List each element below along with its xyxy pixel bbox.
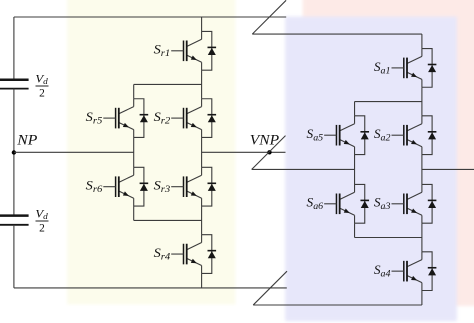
wire: left DC-link vertical, middle section [13,89,15,216]
wire: DC- bottom bus (phase a) [253,304,422,306]
transistor S_a4 (IGBT symbol) [407,260,422,267]
transistor S_r2 (IGBT symbol) [187,107,202,114]
wire: VNP rail to phase-a clamp branch [252,168,355,170]
wire: diode branch loop of S_a1 [422,49,432,88]
wire: diagonal DC- bus interconnect between planes [253,271,287,305]
IGBT cell S_a2: transistor + antiparallel diode [374,116,437,155]
gate lead of S_a3 [392,203,404,205]
transistor S_a1 (IGBT symbol) [407,56,422,63]
gate lead of S_a1 [392,67,404,69]
emitter arrow of S_r3 [191,191,197,195]
gate lead of S_a6 [324,203,336,205]
transistor S_r1 (IGBT symbol) [187,39,202,46]
wire: emitter stub of S_r3 [201,198,203,206]
wire: collector stub of S_r3 [201,167,203,175]
wire: collector stub of S_r5 [133,99,135,107]
capacitor C1, value Vd/2 [0,80,29,89]
gate lead of S_r3 [171,186,183,188]
diode of S_r2 (cathode bar + filled triangle) [208,114,217,116]
wire: main leg vertical Sr2-Sr3 [201,137,203,167]
wire: diode branch loop of S_r3 [202,167,212,206]
diode of S_r6 (cathode bar + filled triangle) [140,182,149,184]
background plane: redundant leg r (yellow) [67,0,235,305]
gate lead of S_r4 [171,253,183,255]
svg-text:NP: NP [16,133,37,149]
wire: emitter stub of S_a2 [421,147,423,155]
diode of S_r4 (cathode bar + filled triangle) [208,250,217,252]
emitter arrow of S_a2 [411,140,417,144]
svg-text:2: 2 [39,222,45,234]
wire: left DC-link vertical, top section [13,17,15,80]
wire: diode branch loop of S_r6 [134,167,144,206]
wire: emitter stub of S_r6 [133,198,135,206]
wire: emitter stub of S_a4 [421,283,423,291]
wire: emitter stub of S_a1 [421,79,423,87]
gate lead of S_r1 [171,50,183,52]
wire: main leg vertical Sr3-Sr4 [201,206,203,235]
diode of S_a4 (cathode bar + filled triangle) [428,267,437,269]
wire: top bus to Sa1 [421,34,423,48]
emitter arrow of S_r1 [191,56,197,60]
gate lead of S_r5 [103,117,115,119]
IGBT cell S_a6: transistor + antiparallel diode [307,184,370,223]
node VNP (dot) [267,150,271,154]
wire: emitter stub of S_a5 [354,147,356,155]
diode of S_a2 (cathode bar + filled triangle) [428,131,437,133]
wire: DC+ top bus (leg r) [14,16,286,18]
wire: DC+ top bus (phase a) [252,33,422,35]
wire: emitter stub of S_r1 [201,62,203,70]
diode of S_r1 (cathode bar + filled triangle) [208,46,217,48]
diode of S_r5 (cathode bar + filled triangle) [140,114,149,116]
wire: phase-a output to right edge [422,168,474,170]
gate lead of S_a4 [392,270,404,272]
wire: collector stub of S_r4 [201,235,203,243]
transistor S_a6 (IGBT symbol) [340,192,355,199]
gate lead of S_a5 [324,134,336,136]
wire: DC- bottom bus (leg r) [14,287,287,289]
IGBT cell S_r2: transistor + antiparallel diode [154,99,217,138]
wire: diagonal DC+ bus interconnect between planes [252,0,286,34]
wire: diode branch loop of S_a4 [422,252,432,291]
wire: emitter stub of S_r4 [201,266,203,274]
wire: clamp vertical Sa5 to Sa6 (through VNP rail) [354,155,356,185]
wire: main leg vertical Sa1-Sa2 [421,87,423,116]
emitter arrow of S_a3 [411,209,417,213]
wire: Sa4 to bottom bus [421,291,423,306]
IGBT cell S_a5: transistor + antiparallel diode [307,116,370,155]
wire: emitter stub of S_r5 [133,130,135,138]
wire: collector stub of S_a1 [421,49,423,57]
wire: main leg vertical Sa2-Sa3 [421,155,423,185]
transistor S_r3 (IGBT symbol) [187,175,202,182]
wire: collector stub of S_a5 [354,116,356,124]
wire: main leg vertical Sa3-Sa4 [421,223,423,252]
wire: emitter stub of S_a3 [421,215,423,223]
emitter arrow of S_a1 [411,73,417,77]
wire: collector stub of S_a6 [354,184,356,192]
transistor S_r5 (IGBT symbol) [119,107,134,114]
wire: collector stub of S_r6 [133,167,135,175]
label Vd/2 for C2 [35,207,48,234]
emitter arrow of S_a6 [344,209,350,213]
wire: collector stub of S_a3 [421,184,423,192]
wire: clamp vertical Sr6 to jx2 [133,206,135,220]
wire: diode branch loop of S_a5 [355,116,365,155]
wire: junction Sa3-Sa4 to clamp bottom [355,237,422,239]
wire: diode branch loop of S_a6 [355,184,365,223]
node NP (dot) [12,150,16,154]
transistor S_a5 (IGBT symbol) [340,124,355,131]
wire: diode branch loop of S_a3 [422,184,432,223]
wire: top bus to Sr1 [201,17,203,31]
transistor S_r6 (IGBT symbol) [119,175,134,182]
wire: clamp vertical Sr5 to Sr6 (through NP rail) [133,137,135,167]
background plane: phase-a (blue) [285,17,457,322]
emitter arrow of S_r2 [191,123,197,127]
wire: junction Sr3-Sr4 to clamp bottom [134,219,202,221]
diode of S_a5 (cathode bar + filled triangle) [360,131,369,133]
wire: collector stub of S_a4 [421,252,423,260]
diode of S_r3 (cathode bar + filled triangle) [208,182,217,184]
emitter arrow of S_a4 [411,276,417,280]
wire: clamp vertical Sa6 to jx2 [354,223,356,237]
emitter arrow of S_a5 [344,140,350,144]
IGBT cell S_a1: transistor + antiparallel diode [374,49,437,88]
label Vd/2 for C1 [35,72,48,99]
transistor S_a3 (IGBT symbol) [407,192,422,199]
emitter arrow of S_r5 [123,123,129,127]
wire: leg r output rail to VNP [202,151,286,153]
diode of S_a3 (cathode bar + filled triangle) [428,199,437,201]
wire: clamp vertical jx1 to Sr5 [133,84,135,98]
wire: emitter stub of S_r2 [201,130,203,138]
emitter arrow of S_r6 [123,191,129,195]
wire: diode branch loop of S_r5 [134,99,144,138]
wire: diode branch loop of S_a2 [422,116,432,155]
background plane: phase-b (pink, behind) [303,0,474,306]
svg-text:2: 2 [39,87,45,99]
wire: collector stub of S_r1 [201,31,203,39]
IGBT cell S_r4: transistor + antiparallel diode [154,235,217,274]
gate lead of S_r2 [171,117,183,119]
gate lead of S_r6 [103,186,115,188]
IGBT cell S_r5: transistor + antiparallel diode [86,99,148,138]
IGBT cell S_r3: transistor + antiparallel diode [154,167,217,206]
wire: junction Sr1-Sr2 to clamp top [134,83,202,85]
wire: diagonal VNP interconnect between planes [252,136,286,170]
wire: Sr4 to bottom bus [201,273,203,288]
wire: collector stub of S_a2 [421,116,423,124]
wire: diode branch loop of S_r1 [202,31,212,70]
diode of S_a1 (cathode bar + filled triangle) [428,64,437,66]
wire: collector stub of S_r2 [201,99,203,107]
wire: clamp vertical jx1 to Sa5 [354,102,356,116]
wire: left DC-link vertical, bottom section [13,225,15,288]
capacitor C2, value Vd/2 [0,216,29,225]
wire: NP rail to clamp branch [14,151,134,153]
gate lead of S_a2 [392,134,404,136]
IGBT cell S_a3: transistor + antiparallel diode [374,184,437,223]
wire: junction Sa1-Sa2 to clamp top [355,101,422,103]
transistor S_r4 (IGBT symbol) [187,243,202,250]
wire: emitter stub of S_a6 [354,215,356,223]
wire: main leg vertical Sr1-Sr2 [201,70,203,99]
wire: diode branch loop of S_r2 [202,99,212,138]
IGBT cell S_a4: transistor + antiparallel diode [374,252,437,291]
emitter arrow of S_r4 [191,259,197,263]
IGBT cell S_r1: transistor + antiparallel diode [154,31,217,70]
IGBT cell S_r6: transistor + antiparallel diode [86,167,148,206]
transistor S_a2 (IGBT symbol) [407,124,422,131]
wire: diode branch loop of S_r4 [202,235,212,274]
diode of S_a6 (cathode bar + filled triangle) [360,199,369,201]
